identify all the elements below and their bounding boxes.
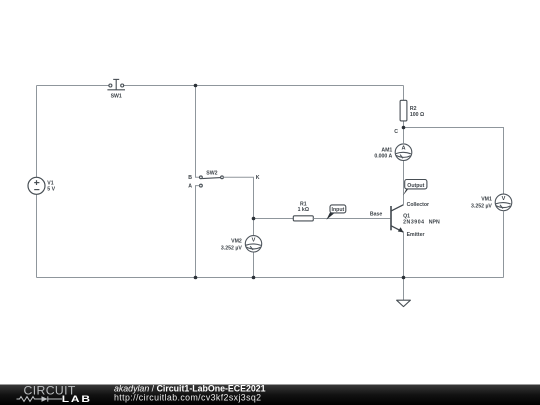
node junction bottom A xyxy=(194,276,198,280)
wire C node to VM1 branch xyxy=(404,128,504,195)
svg-text:1 kΩ: 1 kΩ xyxy=(298,207,309,213)
svg-text:V1: V1 xyxy=(47,180,53,186)
switch SW2 xyxy=(200,176,224,187)
wire bottom rail to ground xyxy=(403,278,405,301)
logo diode triangle xyxy=(42,396,48,402)
svg-text:A: A xyxy=(401,146,405,152)
resistor R2 wires xyxy=(403,86,405,128)
node C junction xyxy=(402,126,406,130)
resistor R1 xyxy=(293,216,313,221)
svg-text:3.252 µV: 3.252 µV xyxy=(221,246,242,252)
svg-text:Input: Input xyxy=(332,207,345,213)
logo resistor-diode line xyxy=(17,396,63,401)
voltmeter VM1 xyxy=(495,194,512,211)
flag Output box xyxy=(405,180,427,189)
wire left rail upper xyxy=(36,86,38,178)
footer bar xyxy=(0,385,540,405)
wire top rail left segment xyxy=(37,85,110,87)
wire SW2 feed vertical xyxy=(196,86,200,178)
svg-text:Emitter: Emitter xyxy=(407,232,425,238)
transistor Q1 xyxy=(391,205,404,233)
svg-text:5 V: 5 V xyxy=(47,187,55,193)
svg-text:K: K xyxy=(256,175,260,181)
svg-text:SW1: SW1 xyxy=(111,93,122,99)
node junction R1 left xyxy=(252,217,256,221)
wire VM1 to bottom rail xyxy=(503,211,505,278)
svg-text:AM1: AM1 xyxy=(381,147,392,153)
svg-text:VM2: VM2 xyxy=(231,239,242,245)
wire emitter to bottom rail xyxy=(403,232,405,277)
switch SW1 xyxy=(107,79,125,89)
wire AM1 to C node xyxy=(403,128,405,144)
svg-text:LAB: LAB xyxy=(62,394,92,404)
svg-text:VM1: VM1 xyxy=(481,196,492,202)
flag Input pointer xyxy=(326,213,335,220)
node junction bottom emitter xyxy=(402,276,406,280)
svg-text:C: C xyxy=(394,129,398,135)
wire top rail right segment xyxy=(124,85,404,87)
wire left rail lower xyxy=(36,194,38,277)
svg-text:NPN: NPN xyxy=(429,220,440,226)
svg-text:http://circuitlab.com/cv3kf2sx: http://circuitlab.com/cv3kf2sxj3sq2 xyxy=(114,392,261,402)
svg-text:3.252 µV: 3.252 µV xyxy=(471,204,492,210)
ammeter AM1 xyxy=(395,144,412,161)
svg-text:V: V xyxy=(502,196,506,202)
wire to R1 xyxy=(254,218,294,220)
svg-text:Base: Base xyxy=(370,212,383,218)
ground xyxy=(397,300,411,306)
svg-text:100 Ω: 100 Ω xyxy=(410,112,424,118)
voltmeter VM2 wires xyxy=(253,219,255,278)
flag Input box xyxy=(330,205,346,213)
svg-text:SW2: SW2 xyxy=(206,170,217,176)
node junction bottom VM2 xyxy=(252,276,256,280)
node junction top xyxy=(194,84,198,88)
svg-text:2N3904: 2N3904 xyxy=(403,220,424,226)
resistor R2 xyxy=(400,100,407,121)
wire SW2 A hook xyxy=(196,186,200,278)
wire SW2 common to K corner xyxy=(223,177,253,218)
svg-text:A: A xyxy=(188,184,192,190)
voltage source V1 xyxy=(28,177,45,194)
wire R1 to base xyxy=(313,218,390,220)
svg-text:Output: Output xyxy=(407,183,424,189)
svg-text:Collector: Collector xyxy=(407,202,429,208)
wire bottom rail xyxy=(37,277,504,279)
wire collector vertical xyxy=(403,161,405,205)
flag Output pointer xyxy=(403,189,408,196)
transistor Q1 emitter arrow xyxy=(398,227,404,232)
voltmeter VM2 xyxy=(245,236,261,252)
svg-text:0.000 A: 0.000 A xyxy=(374,154,392,160)
svg-text:B: B xyxy=(188,175,192,181)
svg-text:V: V xyxy=(252,237,256,243)
